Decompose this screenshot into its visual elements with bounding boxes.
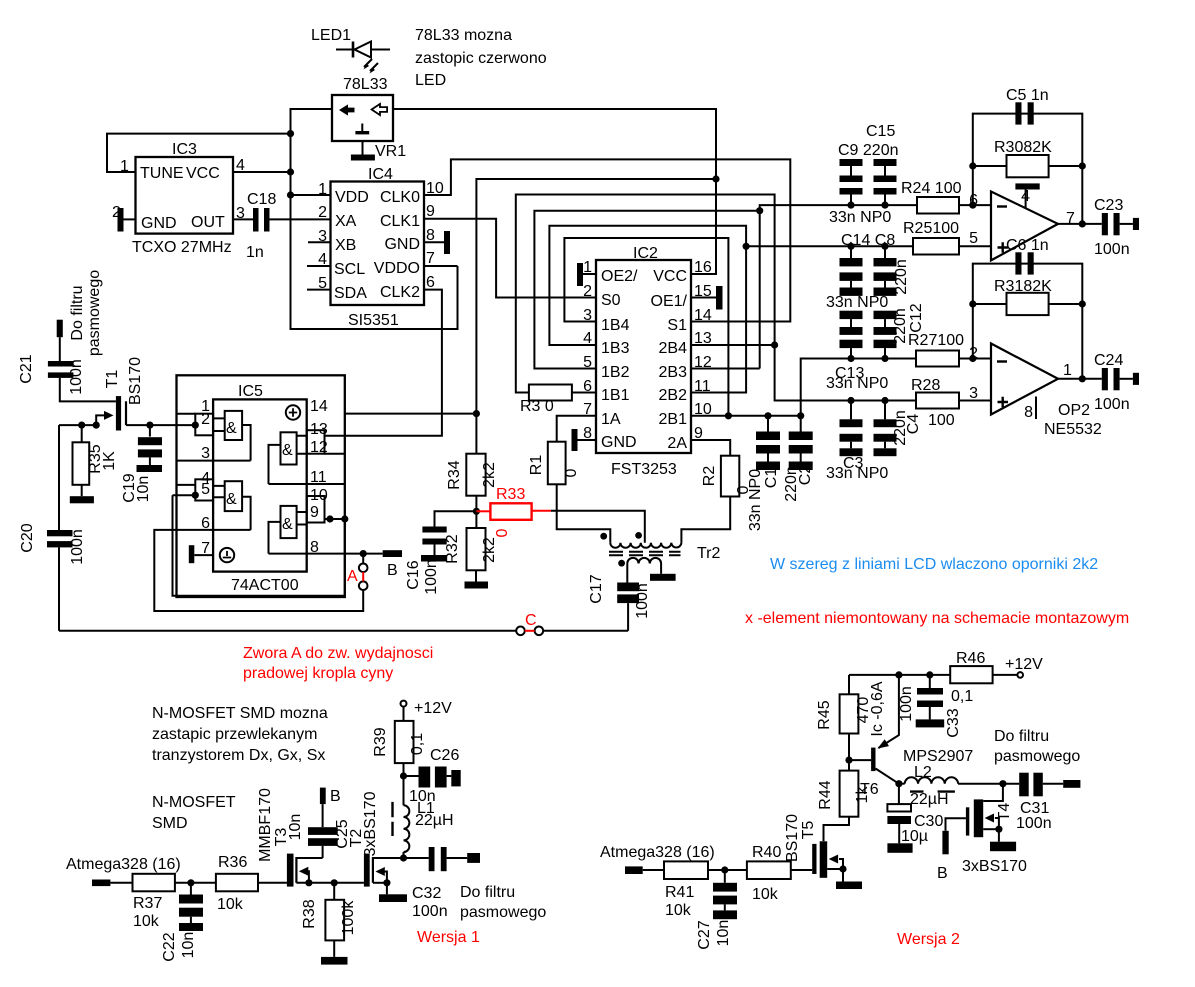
node C2 column <box>797 412 804 419</box>
svg-text:R1: R1 <box>528 455 545 476</box>
svg-text:1B2: 1B2 <box>601 364 630 381</box>
svg-text:LED1: LED1 <box>311 27 351 44</box>
resistor R35 <box>73 425 90 485</box>
capacitor C6 <box>1015 252 1033 274</box>
svg-text:CLK1: CLK1 <box>380 213 420 230</box>
svg-text:SI5351: SI5351 <box>348 312 399 329</box>
svg-text:10n: 10n <box>287 814 304 841</box>
svg-text:Do filtru: Do filtru <box>69 285 86 340</box>
resistor R25 <box>913 238 959 255</box>
svg-text:tranzystorem Dx, Gx, Sx: tranzystorem Dx, Gx, Sx <box>152 747 325 764</box>
svg-text:IC2: IC2 <box>633 245 658 262</box>
feedback loop op2 <box>973 264 1083 379</box>
svg-text:12: 12 <box>694 354 712 371</box>
svg-text:2B3: 2B3 <box>659 364 688 381</box>
resistor R27 <box>916 351 959 367</box>
svg-text:33n NP0: 33n NP0 <box>826 465 888 482</box>
wire IC5 pin1 <box>177 413 196 415</box>
svg-text:3xBS170: 3xBS170 <box>962 858 1027 875</box>
svg-text:R44: R44 <box>817 780 834 809</box>
wire IC5 pin14 to VCC <box>345 413 477 415</box>
svg-text:10k: 10k <box>752 886 779 903</box>
svg-text:100n: 100n <box>68 359 85 395</box>
svg-text:10µ: 10µ <box>901 828 928 845</box>
svg-text:10n: 10n <box>135 476 152 503</box>
svg-text:78L33 mozna: 78L33 mozna <box>415 27 512 44</box>
svg-text:GND: GND <box>384 236 420 253</box>
svg-text:CLK2: CLK2 <box>380 284 420 301</box>
resistor R32 <box>467 528 486 570</box>
svg-text:100: 100 <box>928 412 955 429</box>
wire 2B3 pin12 <box>691 368 760 370</box>
svg-text:T6: T6 <box>860 781 879 798</box>
resistor R40 <box>747 861 791 879</box>
power symbol bottom <box>220 548 234 562</box>
svg-text:MPS2907: MPS2907 <box>903 748 973 765</box>
svg-text:7: 7 <box>201 540 210 557</box>
capacitor C17 <box>617 583 639 631</box>
svg-text:C12: C12 <box>908 303 925 332</box>
terminal B W2 <box>942 818 966 854</box>
svg-text:33n NP0: 33n NP0 <box>826 375 888 392</box>
svg-text:&: & <box>226 420 237 437</box>
svg-text:N-MOSFET SMD mozna: N-MOSFET SMD mozna <box>152 705 328 722</box>
svg-text:R24 100: R24 100 <box>901 180 962 197</box>
svg-text:R45: R45 <box>816 700 833 729</box>
wire R27 row riser <box>801 359 916 416</box>
capacitor C16 <box>421 511 476 561</box>
transistor T4 BS170 <box>966 784 1003 838</box>
terminal B <box>383 550 402 557</box>
capacitor C22 <box>179 883 203 931</box>
svg-text:B: B <box>387 562 398 579</box>
wire op2 output <box>1058 378 1102 380</box>
wire R25 row <box>746 245 913 247</box>
capacitor C20 <box>47 530 73 631</box>
svg-text:1A: 1A <box>601 411 621 428</box>
svg-text:12: 12 <box>310 439 328 456</box>
node 2B4 junction <box>771 341 778 348</box>
svg-text:100n: 100n <box>1016 815 1052 832</box>
wire IC5 pin3 <box>177 460 251 462</box>
capacitor C24 <box>1102 368 1139 390</box>
ground IC4 pin8 <box>424 231 450 254</box>
svg-text:2k2: 2k2 <box>481 462 498 488</box>
IC2 FST3253 box <box>596 260 691 453</box>
wire CLK0 to S1 <box>424 159 790 321</box>
capacitor C3 <box>840 401 863 457</box>
svg-text:5: 5 <box>969 230 978 247</box>
svg-text:pradowej kropla cyny: pradowej kropla cyny <box>243 665 393 682</box>
capacitor C1 <box>756 416 780 470</box>
ground R38 <box>321 940 348 964</box>
svg-text:100n: 100n <box>1094 241 1130 258</box>
pin8 stub <box>1035 397 1037 420</box>
capacitor C2 <box>789 416 813 470</box>
resistor R45 <box>840 675 859 760</box>
capacitor C30 <box>887 784 912 853</box>
svg-text:5: 5 <box>583 354 592 371</box>
node VCC at IC5 pin14 <box>473 410 480 417</box>
op-amp U2 OP2 NE5532 <box>991 344 1058 415</box>
capacitor C32 <box>404 847 481 871</box>
svg-text:100n: 100n <box>412 903 448 920</box>
op-amp U1A (NE5532) <box>991 192 1058 261</box>
resistor R3 <box>529 385 572 401</box>
svg-text:14: 14 <box>310 398 328 415</box>
svg-text:B: B <box>937 865 948 882</box>
capacitor C14 <box>840 246 863 296</box>
wire R36 to T3 gate <box>258 882 287 884</box>
svg-text:10k: 10k <box>133 913 160 930</box>
svg-text:11: 11 <box>310 469 327 486</box>
svg-text:VDD: VDD <box>335 189 369 206</box>
svg-text:2: 2 <box>201 411 210 428</box>
svg-text:VDDO: VDDO <box>374 260 420 277</box>
svg-text:S0: S0 <box>601 292 621 309</box>
LED LED1 <box>336 42 390 74</box>
svg-text:10n: 10n <box>180 932 197 959</box>
svg-text:2B4: 2B4 <box>659 340 688 357</box>
power symbol top <box>286 405 300 419</box>
svg-text:zastapic przewlekanym: zastapic przewlekanym <box>152 726 317 743</box>
svg-text:6: 6 <box>201 515 210 532</box>
wire net 1B2 to R24 row and 2B3 (H4) <box>534 211 759 369</box>
wire IC4 pin6 CLK2 to IC5 pin13 <box>345 290 442 436</box>
svg-text:XA: XA <box>335 213 357 230</box>
svg-text:pasmowego: pasmowego <box>86 270 103 356</box>
svg-text:GND: GND <box>141 215 177 232</box>
svg-text:GND: GND <box>601 434 637 451</box>
wire 2B4 pin13 <box>691 344 775 346</box>
wire IC5 pin5 from jumper loop <box>173 494 196 496</box>
VR1 ground <box>351 141 375 161</box>
resistor R46 <box>950 666 992 683</box>
svg-text:x -element niemontowany na sch: x -element niemontowany na schemacie mon… <box>745 610 1129 627</box>
svg-text:74ACT00: 74ACT00 <box>231 577 299 594</box>
wire net 1B1-R3 to 2B4 and R28 (H3) <box>516 195 916 401</box>
resistor R44 <box>840 771 859 817</box>
gate U5A <box>195 411 250 461</box>
svg-text:SDA: SDA <box>334 285 367 302</box>
svg-text:Atmega328 (16): Atmega328 (16) <box>600 844 715 861</box>
svg-text:OUT: OUT <box>191 214 225 231</box>
transistor T1 BS170 <box>96 396 126 430</box>
wire VR1 right VCC to IC2 pin16 <box>393 109 716 274</box>
svg-text:C32: C32 <box>412 885 441 902</box>
svg-text:NE5532: NE5532 <box>1044 421 1102 438</box>
ground rail with jumper C <box>59 630 516 632</box>
ground T2 source <box>379 883 407 902</box>
node C31/T4 <box>999 780 1006 787</box>
svg-text:5: 5 <box>201 481 210 498</box>
wire IC4 pin5 SDA stub <box>307 289 331 291</box>
svg-text:10: 10 <box>694 401 712 418</box>
transistor T2 BS170 <box>364 854 404 887</box>
capacitor C27 <box>713 870 737 919</box>
ground IC5 pin7 <box>189 545 213 563</box>
svg-text:&: & <box>282 516 293 533</box>
svg-text:100k: 100k <box>340 900 357 936</box>
wire R2 to Tr2 primary right <box>681 497 730 543</box>
svg-text:C14 C8: C14 C8 <box>841 232 895 249</box>
wire IC4 pin4 SCL stub <box>307 265 331 267</box>
svg-text:&: & <box>282 442 293 459</box>
IC4 SI5351 box <box>331 182 425 306</box>
svg-text:IC5: IC5 <box>238 383 263 400</box>
terminal C21 top <box>57 320 63 338</box>
svg-text:13: 13 <box>310 421 328 438</box>
transistor T6 MPS2907 <box>871 675 899 784</box>
resistor R30 82K <box>973 155 1083 177</box>
ground IC2 pin15 OE1/ <box>691 286 723 310</box>
gate U5D <box>269 496 325 554</box>
capacitor C9 <box>840 159 863 205</box>
capacitor C18 <box>233 208 331 232</box>
ground IC2 pin8 GND <box>572 429 597 451</box>
svg-text:1B1: 1B1 <box>601 387 630 404</box>
IC3 TCXO box <box>136 157 234 234</box>
node R25 junction <box>743 243 750 250</box>
svg-text:R41: R41 <box>665 884 694 901</box>
wire IC4 pin7 VDDO <box>424 265 458 267</box>
wire R24 row riser <box>760 205 917 368</box>
svg-text:R33: R33 <box>496 486 525 503</box>
capacitor C25 <box>308 804 338 858</box>
wire VR1 left to VDDO loop <box>291 109 458 329</box>
ground Tr2 secondary right <box>650 564 676 581</box>
svg-text:W szereg z liniami LCD wlaczon: W szereg z liniami LCD wlaczono oporniki… <box>770 556 1098 573</box>
wire IC5 pin6 to jumper A rail <box>154 530 363 611</box>
svg-text:Do filtru: Do filtru <box>994 728 1049 745</box>
svg-text:OE1/: OE1/ <box>651 293 688 310</box>
svg-text:C6 1n: C6 1n <box>1006 237 1049 254</box>
svg-text:zastopic czerwono: zastopic czerwono <box>415 50 547 67</box>
svg-text:C18: C18 <box>247 191 276 208</box>
svg-text:A: A <box>347 568 358 585</box>
capacitor C13 <box>840 311 863 359</box>
svg-text:pasmowego: pasmowego <box>994 748 1080 765</box>
resistor R2 <box>721 456 739 497</box>
capacitor C8 <box>874 246 897 296</box>
svg-text:VR1: VR1 <box>375 143 406 160</box>
wire R41 to R40 <box>708 869 747 871</box>
svg-text:Wersja 2: Wersja 2 <box>897 931 960 948</box>
wire R33 node to Tr2 mid <box>551 511 645 543</box>
svg-text:B: B <box>330 788 341 805</box>
ground R32 <box>465 570 489 588</box>
wire R3 to 1B1 <box>572 392 596 394</box>
resistor R24 <box>917 197 959 214</box>
svg-text:C22: C22 <box>161 932 178 961</box>
svg-text:XB: XB <box>335 237 356 254</box>
svg-text:3: 3 <box>583 307 592 324</box>
svg-text:4: 4 <box>1021 188 1030 205</box>
wire T3 source row to T2 gate <box>296 882 364 884</box>
ground T5 source <box>836 869 862 889</box>
svg-text:TUNE: TUNE <box>140 165 184 182</box>
IC5 74ACT00 outer box <box>177 375 345 597</box>
svg-text:220n: 220n <box>893 259 910 295</box>
wire IC4 pin3 XB stub <box>308 241 331 243</box>
svg-text:SCL: SCL <box>334 261 365 278</box>
svg-text:R46: R46 <box>956 650 985 667</box>
node 2B1 at H6 <box>725 412 732 419</box>
terminal +12V W1 <box>401 701 407 707</box>
wire IC5 pin13 stub <box>325 435 345 437</box>
svg-text:FST3253: FST3253 <box>611 461 677 478</box>
wire 2A to R2 <box>691 440 730 456</box>
svg-text:T5: T5 <box>800 821 817 840</box>
svg-text:C5 1n: C5 1n <box>1006 87 1049 104</box>
svg-text:0: 0 <box>563 468 580 477</box>
resistor R38 <box>325 883 344 941</box>
ground R35 <box>70 485 94 504</box>
svg-text:Do filtru: Do filtru <box>460 884 515 901</box>
svg-text:MMBF170: MMBF170 <box>257 788 274 862</box>
svg-text:9: 9 <box>310 504 319 521</box>
svg-text:R2: R2 <box>701 466 718 487</box>
ground T4 source <box>990 829 1016 851</box>
svg-text:IC4: IC4 <box>368 166 393 183</box>
ground IC3 pin2 <box>118 208 136 232</box>
svg-text:+12V: +12V <box>414 700 452 717</box>
svg-text:S1: S1 <box>667 317 687 334</box>
resistor R39 <box>395 707 414 806</box>
svg-text:220n: 220n <box>892 308 909 344</box>
svg-text:100n: 100n <box>898 686 915 722</box>
wire T5 drain to R44 <box>824 817 850 842</box>
svg-text:R39: R39 <box>372 727 389 756</box>
svg-text:C23: C23 <box>1094 197 1123 214</box>
svg-text:C17: C17 <box>588 574 605 603</box>
wire R37 to R36 <box>175 882 216 884</box>
svg-text:22µH: 22µH <box>910 791 949 808</box>
capacitor C15 <box>874 159 897 205</box>
node T6 collector <box>895 780 902 787</box>
svg-text:R37: R37 <box>133 895 162 912</box>
svg-text:4: 4 <box>583 330 592 347</box>
svg-text:8: 8 <box>310 539 319 556</box>
svg-text:11: 11 <box>694 378 711 395</box>
wire op1 output <box>1058 223 1102 225</box>
svg-text:3: 3 <box>201 445 210 462</box>
inductor L1 <box>393 802 410 858</box>
svg-text:R3 0: R3 0 <box>520 398 554 415</box>
svg-text:N-MOSFET: N-MOSFET <box>152 794 236 811</box>
svg-text:0,1: 0,1 <box>409 733 426 755</box>
wire R44 to base node <box>848 760 850 771</box>
resistor R1 <box>548 442 566 485</box>
inductor L2 <box>899 777 1019 791</box>
svg-text:OP2: OP2 <box>1058 402 1090 419</box>
wire IC5 pin9 <box>325 518 345 520</box>
svg-text:2A: 2A <box>667 435 687 452</box>
capacitor C26 <box>404 767 461 788</box>
svg-text:VCC: VCC <box>186 165 220 182</box>
node dots on VCC vertical <box>287 130 294 137</box>
resistor R31 82K <box>973 293 1083 315</box>
svg-text:+12V: +12V <box>1005 656 1043 673</box>
svg-text:OE2/: OE2/ <box>601 268 638 285</box>
svg-text:100n: 100n <box>69 529 86 565</box>
svg-text:VCC: VCC <box>653 268 687 285</box>
wire net 1B4 to 2B1 (H6) <box>564 238 728 416</box>
resistor R41 <box>664 861 708 879</box>
IC5 inner box <box>213 399 307 571</box>
resistor R28 <box>916 393 959 409</box>
wire IC5 pin8 to B <box>269 553 383 555</box>
svg-text:R28: R28 <box>911 377 940 394</box>
wire pin5 to pin9 inner link <box>173 495 345 596</box>
ground IC2 pin1 OE2/ <box>577 263 596 286</box>
svg-text:0,1: 0,1 <box>951 688 973 705</box>
svg-text:R25100: R25100 <box>903 220 959 237</box>
wire R1 to Tr2 primary left <box>557 484 611 542</box>
terminal B W1 <box>320 788 326 805</box>
svg-text:100n: 100n <box>423 559 440 595</box>
svg-text:8: 8 <box>1024 404 1033 421</box>
svg-text:10k: 10k <box>665 902 692 919</box>
svg-text:LED: LED <box>415 72 446 89</box>
svg-text:TCXO 27MHz: TCXO 27MHz <box>132 239 232 256</box>
svg-text:1K: 1K <box>101 451 118 471</box>
svg-text:Wersja 1: Wersja 1 <box>417 929 480 946</box>
wire VCC branch to IC5 pin14 and R34 <box>476 179 716 454</box>
svg-text:SMD: SMD <box>152 815 188 832</box>
wire T1 node down to C20 <box>58 425 60 530</box>
svg-text:33n NP0: 33n NP0 <box>826 294 888 311</box>
svg-text:78L33: 78L33 <box>343 76 388 93</box>
transformer Tr2 <box>600 532 681 567</box>
svg-text:T4: T4 <box>996 803 1013 822</box>
svg-text:C21: C21 <box>18 354 35 383</box>
svg-text:pasmowego: pasmowego <box>460 904 546 921</box>
svg-text:C2: C2 <box>797 465 814 486</box>
svg-text:22µH: 22µH <box>415 812 454 829</box>
svg-text:100n: 100n <box>1094 396 1130 413</box>
capacitor C19 <box>137 425 163 472</box>
svg-text:16: 16 <box>694 259 712 276</box>
wire IC5 pin11 <box>269 483 345 485</box>
svg-text:2: 2 <box>583 283 592 300</box>
capacitor C5 <box>1015 102 1033 124</box>
wire Tr2 secondary left to C17 <box>626 564 628 583</box>
svg-text:Ic -0,6A: Ic -0,6A <box>869 681 886 736</box>
svg-text:Tr2: Tr2 <box>697 545 721 562</box>
svg-text:C16: C16 <box>405 560 422 589</box>
svg-text:CLK0: CLK0 <box>380 189 420 206</box>
feedback loop op1 <box>973 114 1083 224</box>
svg-text:3xBS170: 3xBS170 <box>362 791 379 856</box>
svg-text:C4: C4 <box>905 414 922 435</box>
node C1 column <box>764 412 771 419</box>
svg-text:100n: 100n <box>634 583 651 619</box>
transistor T5 BS170 <box>812 841 843 878</box>
svg-text:C33: C33 <box>945 708 962 737</box>
svg-text:10: 10 <box>310 487 328 504</box>
svg-text:6: 6 <box>426 274 435 291</box>
capacitor C21 <box>48 337 116 401</box>
svg-text:1B3: 1B3 <box>601 340 630 357</box>
svg-text:R34: R34 <box>446 460 463 489</box>
svg-text:R38: R38 <box>301 899 318 928</box>
svg-text:C24: C24 <box>1094 352 1123 369</box>
terminal Atmega input W1 <box>92 880 110 887</box>
wire to R37 <box>110 882 132 884</box>
resistor R37 <box>133 874 175 892</box>
svg-text:0: 0 <box>494 528 511 537</box>
